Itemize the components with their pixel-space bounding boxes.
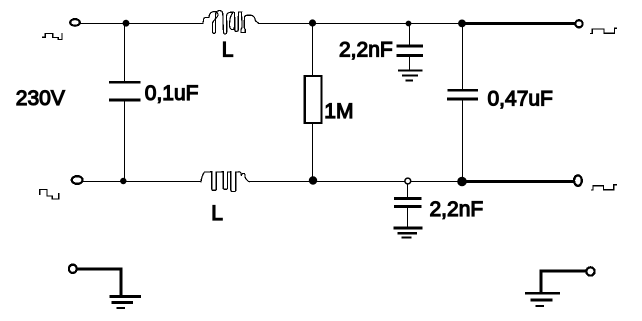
wire top rail left segment: [81, 23, 203, 25]
AC waveform symbol top-left: [43, 33, 62, 39]
label L (bottom inductor): [211, 202, 223, 225]
label 1M: [324, 100, 353, 123]
capacitor C4 2,2nF top wire: [407, 184, 409, 197]
terminal neutral output bottom-right: [574, 175, 582, 185]
capacitor C2 2,2nF plates: [398, 46, 422, 55]
label 2,2nF top: [339, 39, 393, 62]
svg-text:230V: 230V: [16, 87, 65, 110]
label 2,2nF bottom: [430, 198, 484, 221]
label L (top inductor): [222, 39, 234, 62]
terminal earth bottom-right: [586, 267, 594, 275]
svg-text:L: L: [211, 202, 223, 225]
svg-text:L: L: [222, 39, 234, 62]
label 0,47uF: [488, 87, 553, 110]
svg-text:1M: 1M: [324, 100, 353, 123]
node junction top x312: [309, 19, 316, 26]
inductor L1 (top coil): [203, 11, 259, 34]
capacitor C3 bottom wire: [462, 100, 464, 181]
wire earth bottom-right horizontal: [541, 270, 585, 273]
AC waveform symbol bottom-right: [592, 185, 617, 190]
capacitor C3 0,47uF plates: [449, 90, 477, 99]
resistor R1 bottom wire: [312, 123, 314, 181]
terminal neutral input bottom-left: [72, 176, 83, 184]
capacitor C1 0,1uF plates: [110, 82, 139, 100]
resistor R1 1M body: [305, 76, 322, 123]
resistor R1 top wire: [312, 23, 314, 77]
AC waveform symbol bottom-left: [40, 189, 59, 199]
node junction top x408: [406, 21, 412, 27]
node junction top x462: [458, 20, 466, 28]
node junction bottom x313: [309, 176, 317, 184]
capacitor C1 bottom wire: [124, 102, 126, 182]
wire bottom rail right thick segment: [462, 180, 572, 183]
node junction bottom x462: [457, 177, 467, 187]
label 0,1uF: [145, 82, 199, 105]
ground symbol below C2: [399, 71, 422, 81]
wire earth bottom-left vertical: [120, 269, 123, 296]
wire top rail middle segment: [259, 23, 462, 25]
AC waveform symbol top-right: [591, 28, 617, 33]
wire top rail right thick segment: [462, 22, 575, 25]
ground symbol bottom-right: [527, 293, 559, 306]
capacitor C2 bottom wire: [409, 56, 411, 69]
capacitor C1 0,1uF top wire: [124, 23, 126, 81]
wire bottom rail middle segment: [249, 181, 462, 183]
wire earth bottom-left horizontal: [78, 268, 121, 271]
capacitor C2 2,2nF top wire: [409, 24, 411, 45]
svg-text:0,47uF: 0,47uF: [488, 87, 553, 110]
node junction bottom x123: [120, 178, 126, 184]
terminal line input top-left: [70, 19, 80, 26]
svg-text:2,2nF: 2,2nF: [339, 39, 393, 62]
node junction bottom x408 (open): [405, 178, 411, 184]
inductor L2 (bottom coil): [201, 172, 249, 192]
capacitor C4 2,2nF plates: [396, 199, 421, 207]
ground symbol bottom-left: [111, 297, 140, 309]
terminal earth bottom-left: [69, 265, 77, 273]
label 230V: [16, 87, 65, 110]
ground symbol below C4: [395, 228, 422, 238]
node junction top x125: [123, 20, 130, 27]
capacitor C4 bottom wire: [407, 208, 409, 227]
terminal line output top-right: [575, 20, 582, 27]
capacitor C3 0,47uF top wire: [462, 24, 464, 90]
wire earth bottom-right vertical: [540, 271, 543, 292]
wire bottom rail left segment: [84, 181, 201, 183]
svg-text:2,2nF: 2,2nF: [430, 198, 484, 221]
svg-text:0,1uF: 0,1uF: [145, 82, 199, 105]
